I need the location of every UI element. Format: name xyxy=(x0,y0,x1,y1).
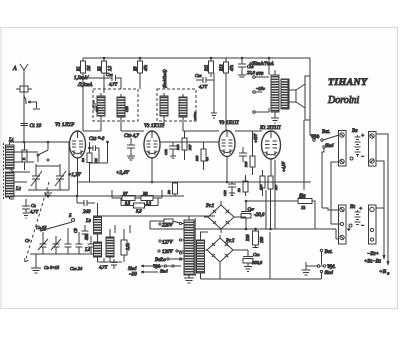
svg-text:Pr.2: Pr.2 xyxy=(225,239,235,244)
svg-text:120V: 120V xyxy=(162,250,174,255)
svg-text:(5mA/2mA): (5mA/2mA) xyxy=(162,69,167,88)
svg-text:1,5mA/: 1,5mA/ xyxy=(74,76,89,81)
svg-text:wt/2w: wt/2w xyxy=(193,111,197,120)
svg-text:~15v: ~15v xyxy=(256,86,265,91)
svg-text:1M: 1M xyxy=(94,158,98,163)
svg-text:C29: C29 xyxy=(223,190,227,196)
svg-text:Bat.: Bat. xyxy=(322,130,330,135)
svg-text:C16: C16 xyxy=(106,72,113,77)
svg-text:R10: R10 xyxy=(176,144,180,151)
svg-text:C25: C25 xyxy=(195,73,202,78)
svg-text:C9: C9 xyxy=(73,228,78,233)
svg-text:Bat.: Bat. xyxy=(325,250,333,255)
svg-text:V1 1Л1Р: V1 1Л1Р xyxy=(55,122,75,128)
svg-text:C27: C27 xyxy=(248,207,255,212)
svg-text:430: 430 xyxy=(84,234,89,240)
svg-text:C7: C7 xyxy=(25,238,30,243)
svg-text:47k: 47k xyxy=(229,65,234,71)
svg-text:C1 10: C1 10 xyxy=(30,123,42,129)
svg-text:Sieć: Sieć xyxy=(325,144,334,149)
svg-text:C13 *-0: C13 *-0 xyxy=(89,136,105,142)
svg-text:R12: R12 xyxy=(219,65,224,72)
svg-text:↓65mA/7mA: ↓65mA/7mA xyxy=(249,62,275,67)
svg-text:6V0: 6V0 xyxy=(256,71,264,76)
svg-text:+1,2V: +1,2V xyxy=(68,173,82,178)
svg-text:Sieć: Sieć xyxy=(160,269,168,274)
svg-text:R18: R18 xyxy=(298,194,306,199)
svg-text:+: + xyxy=(347,228,350,233)
svg-text:Sieć: Sieć xyxy=(325,271,334,276)
svg-text:R8: R8 xyxy=(142,191,147,196)
svg-text:R16: R16 xyxy=(259,184,263,191)
svg-text:R2: R2 xyxy=(97,67,102,72)
svg-text:C32: C32 xyxy=(253,252,260,257)
svg-text:V2 1К1П: V2 1К1П xyxy=(144,123,165,129)
svg-text:+: + xyxy=(361,134,364,139)
svg-text:+2,4V: +2,4V xyxy=(116,171,130,176)
svg-text:−B2+: −B2+ xyxy=(367,251,379,257)
svg-text:240: 240 xyxy=(83,210,91,215)
svg-text:R4: R4 xyxy=(81,158,85,163)
svg-text:Pr.1: Pr.1 xyxy=(205,204,214,209)
svg-text:R13: R13 xyxy=(195,155,199,162)
svg-text:R3: R3 xyxy=(133,67,138,72)
svg-text:C10 24: C10 24 xyxy=(70,266,83,271)
svg-text:TIHANY: TIHANY xyxy=(328,77,368,88)
svg-text:Ba: Ba xyxy=(352,129,358,134)
svg-text:47k: 47k xyxy=(143,65,148,71)
svg-text:Sieć: Sieć xyxy=(128,267,137,272)
svg-text:R19: R19 xyxy=(245,235,250,242)
svg-text:C18: C18 xyxy=(125,106,129,112)
svg-text:+B1−B2: +B1−B2 xyxy=(364,259,381,265)
svg-text:+: + xyxy=(359,207,362,212)
svg-text:+65V: +65V xyxy=(253,133,258,143)
svg-text:K1 2П1П: K1 2П1П xyxy=(259,125,282,131)
svg-text:Wył.: Wył. xyxy=(327,265,336,270)
svg-text:C3 0÷15: C3 0÷15 xyxy=(44,265,60,270)
svg-text:R1: R1 xyxy=(76,67,81,72)
svg-text:C19 4,7: C19 4,7 xyxy=(124,133,139,139)
svg-text:-20,0: -20,0 xyxy=(254,213,265,218)
svg-text:A: A xyxy=(12,66,17,72)
svg-text:R9: R9 xyxy=(167,190,171,195)
svg-text:/2,1mA: /2,1mA xyxy=(77,83,93,88)
svg-text:−: − xyxy=(361,155,364,160)
svg-text:C22: C22 xyxy=(164,149,168,155)
svg-text:+B: +B xyxy=(379,269,387,275)
svg-text:C2: C2 xyxy=(31,203,36,208)
svg-text:127V: 127V xyxy=(162,241,174,246)
svg-text:BaŁo: BaŁo xyxy=(155,258,166,263)
svg-text:~50: ~50 xyxy=(129,273,137,278)
svg-text:−: − xyxy=(361,224,364,229)
svg-text:C8 15: C8 15 xyxy=(36,225,47,230)
svg-text:C17: C17 xyxy=(95,106,99,112)
svg-text:R15: R15 xyxy=(244,161,248,168)
svg-text:Dorolni: Dorolni xyxy=(327,95,360,106)
svg-text:220V: 220V xyxy=(162,224,174,229)
svg-text:R17: R17 xyxy=(274,184,278,191)
svg-text:Rb: Rb xyxy=(237,188,241,193)
svg-text:V3 1Б1П: V3 1Б1П xyxy=(219,120,239,126)
svg-text:R11: R11 xyxy=(204,65,209,72)
svg-text:1M: 1M xyxy=(86,65,91,71)
svg-text:160: 160 xyxy=(259,237,264,243)
